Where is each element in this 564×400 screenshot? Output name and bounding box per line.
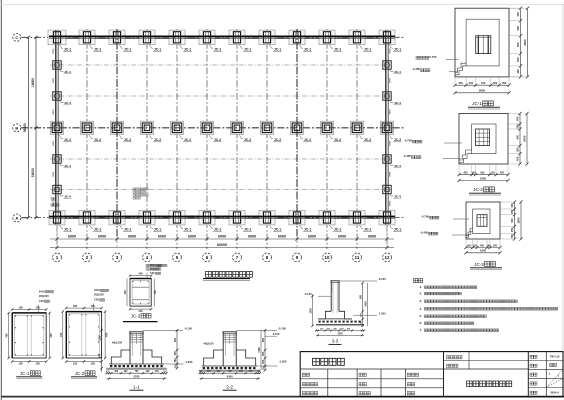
svg-text:300: 300 [516,147,520,152]
svg-text:100: 100 [257,371,260,373]
svg-text:JC-4: JC-4 [394,101,401,105]
svg-text:2-2: 2-2 [226,384,233,389]
svg-text:JC-2: JC-2 [364,138,371,142]
svg-text:-0.150: -0.150 [184,326,192,330]
svg-text:JC-1: JC-1 [154,228,161,232]
svg-text:JC-2: JC-2 [94,138,101,142]
svg-text:4200: 4200 [227,375,233,379]
svg-text:550: 550 [516,25,520,30]
svg-text:-0.450: -0.450 [403,154,411,158]
svg-text:6000: 6000 [390,77,392,83]
svg-text:6000: 6000 [53,77,55,83]
svg-text:JC-1: JC-1 [364,228,371,232]
svg-text:450: 450 [463,172,468,175]
svg-text:250: 250 [511,209,514,214]
svg-text:450: 450 [500,172,505,175]
svg-text:1200: 1200 [98,335,101,341]
svg-text:6000: 6000 [128,235,136,239]
svg-text:6000: 6000 [390,48,392,54]
svg-text:6000: 6000 [368,235,376,239]
svg-text:1400: 1400 [337,332,343,335]
svg-text:JC-1: JC-1 [184,228,191,232]
svg-text:#8@200: #8@200 [39,294,49,298]
svg-text:JC-2: JC-2 [154,138,161,142]
svg-text:2400: 2400 [480,176,486,180]
svg-text:JC-4: JC-4 [64,164,71,168]
svg-text:JC-1: JC-1 [94,228,101,232]
svg-text:JC-1: JC-1 [94,48,101,52]
svg-text:650: 650 [516,42,520,47]
svg-text:150: 150 [471,172,476,175]
svg-text:240: 240 [139,273,144,276]
svg-text:300: 300 [467,244,472,247]
svg-text:B: B [15,125,18,130]
svg-text:-0.450: -0.450 [412,67,420,71]
svg-text:900: 900 [359,294,362,299]
svg-text:185: 185 [19,306,24,309]
svg-text:700: 700 [481,81,486,85]
svg-text:5.: 5. [420,314,423,318]
svg-text:6000: 6000 [68,235,76,239]
svg-text:C30: C30 [150,272,155,275]
svg-text:#8@150: #8@150 [150,268,160,271]
svg-text:450: 450 [502,81,507,85]
svg-text:JC-1: JC-1 [184,48,191,52]
svg-text:350: 350 [262,351,265,356]
svg-text:6.: 6. [420,321,423,325]
svg-text:1-1: 1-1 [133,384,140,389]
svg-text:JC-1: JC-1 [64,228,71,232]
svg-text:550: 550 [516,57,520,62]
svg-text:3-3: 3-3 [332,339,339,344]
svg-text:JC-2: JC-2 [214,138,221,142]
svg-text:4.: 4. [420,307,423,311]
svg-text:6000: 6000 [98,235,106,239]
svg-text:2.: 2. [420,292,423,296]
svg-text:JC-2: JC-2 [473,187,483,192]
svg-text:JC-2: JC-2 [75,371,85,376]
svg-text:C30: C30 [39,299,44,303]
svg-text:400: 400 [493,81,498,85]
svg-text:12: 12 [385,255,390,260]
svg-text:JC-2: JC-2 [244,138,251,142]
svg-text:450: 450 [516,12,520,17]
svg-text:400: 400 [480,244,485,247]
svg-text:JC-1: JC-1 [124,48,131,52]
svg-text:1600: 1600 [480,249,486,253]
svg-text:JC-1: JC-1 [334,228,341,232]
svg-text:JC-1: JC-1 [274,228,281,232]
svg-text:C30: C30 [94,298,99,302]
svg-text:300: 300 [493,244,498,247]
svg-text:350: 350 [262,359,265,364]
svg-text:2400: 2400 [523,135,527,142]
svg-text:600: 600 [480,172,485,175]
svg-text:6000: 6000 [53,171,55,177]
svg-text:6000: 6000 [390,171,392,177]
svg-text:450: 450 [59,332,63,337]
svg-text:2004.4: 2004.4 [550,391,559,395]
svg-text:C: C [15,35,18,40]
svg-text:185: 185 [73,305,78,308]
svg-text:6000: 6000 [53,109,55,115]
svg-text:JC-4: JC-4 [394,164,401,168]
svg-text:150: 150 [487,244,492,247]
svg-text:T06-1-16: T06-1-16 [550,356,560,359]
svg-text:600: 600 [516,134,520,139]
svg-text:4#14: 4#14 [150,264,156,267]
svg-text:-0.700: -0.700 [404,139,412,143]
svg-text:400: 400 [516,156,520,161]
svg-text:185: 185 [91,305,96,308]
svg-text:JC-4: JC-4 [64,195,71,199]
svg-text:#8@200: #8@200 [94,293,104,297]
svg-text:6000: 6000 [308,235,316,239]
svg-text:JC-3: JC-3 [131,313,141,318]
svg-text:100: 100 [199,371,202,373]
svg-text:JC-1: JC-1 [244,228,251,232]
svg-text:#8@150: #8@150 [204,342,215,346]
svg-text:-0.450: -0.450 [420,231,428,235]
svg-text:500: 500 [511,218,514,223]
svg-text:185: 185 [73,363,78,366]
svg-text:6000: 6000 [188,235,196,239]
svg-text:JC-2: JC-2 [274,138,281,142]
svg-text:1200: 1200 [309,308,312,314]
svg-text:6000: 6000 [248,235,256,239]
svg-text:300: 300 [124,290,127,295]
svg-text:2#16: 2#16 [94,288,100,292]
svg-text:JC-4: JC-4 [394,195,401,199]
svg-text:350: 350 [174,351,177,356]
svg-text:450: 450 [104,332,108,337]
svg-text:6000: 6000 [390,140,392,146]
svg-text:JC-1: JC-1 [304,228,311,232]
svg-text:JC-2: JC-2 [184,138,191,142]
svg-text:3.: 3. [420,299,423,303]
svg-text:JC-1: JC-1 [64,48,71,52]
svg-text:2700: 2700 [134,375,140,379]
svg-text:JC-1: JC-1 [214,48,221,52]
svg-text:900: 900 [174,337,177,342]
svg-text:300: 300 [511,203,514,208]
svg-text:-1.050: -1.050 [185,360,193,364]
svg-text:1600: 1600 [517,217,521,224]
svg-text:450: 450 [458,81,463,85]
svg-text:JC-1: JC-1 [472,101,482,106]
svg-text:#8@150: #8@150 [112,341,123,345]
svg-text:-0.700: -0.700 [429,55,437,59]
svg-text:66000: 66000 [217,243,227,247]
svg-text:150: 150 [491,172,496,175]
svg-text:6000: 6000 [158,235,166,239]
svg-text:18000: 18000 [31,78,35,87]
svg-text:6000: 6000 [53,48,55,54]
svg-text:200: 200 [516,124,520,129]
svg-text:450: 450 [49,333,53,338]
svg-text:185: 185 [36,363,41,366]
svg-text:2#16: 2#16 [39,289,45,293]
svg-text:150: 150 [473,244,478,247]
svg-text:36000: 36000 [23,123,27,132]
svg-text:-0.700: -0.700 [421,215,429,219]
svg-text:300: 300 [154,290,157,295]
svg-text:JC-1: JC-1 [214,228,221,232]
svg-text:6000: 6000 [390,200,392,206]
svg-text:JC-2: JC-2 [64,138,71,142]
svg-text:6000: 6000 [278,235,286,239]
svg-text:JC-1: JC-1 [394,48,401,52]
svg-text:JC-2: JC-2 [304,138,311,142]
svg-text:-0.150: -0.150 [278,326,286,330]
svg-text:185: 185 [91,363,96,366]
svg-text:185: 185 [36,306,41,309]
svg-text:1.: 1. [420,285,423,289]
svg-text:JC-1: JC-1 [274,48,281,52]
svg-text:350: 350 [174,358,177,363]
svg-text:100: 100 [163,371,166,373]
svg-text:-1.050: -1.050 [279,360,287,364]
svg-text:JC-4: JC-4 [64,101,71,105]
svg-text:-0.150: -0.150 [378,277,386,281]
svg-text:100: 100 [106,371,109,373]
svg-text:6000: 6000 [390,109,392,115]
svg-text:JC-1: JC-1 [334,48,341,52]
svg-text:6000: 6000 [218,235,226,239]
svg-text:JC-4: JC-4 [64,70,71,74]
svg-text:-0.150: -0.150 [272,332,280,336]
svg-text:185: 185 [19,363,24,366]
svg-text:2650: 2650 [523,39,527,46]
svg-text:7.: 7. [420,328,423,332]
svg-text:1450: 1450 [258,347,261,353]
svg-text:JC-2: JC-2 [124,138,131,142]
svg-text:400: 400 [469,81,474,85]
svg-text:JC-1: JC-1 [124,228,131,232]
svg-text:JC-1: JC-1 [304,48,311,52]
svg-text:300: 300 [511,234,514,239]
svg-text:250: 250 [511,227,514,232]
svg-text:2650: 2650 [479,89,486,93]
svg-text:18000: 18000 [31,168,35,177]
svg-text:A: A [15,216,18,221]
svg-text:1400: 1400 [364,301,367,307]
svg-text:10: 10 [325,255,330,260]
svg-text:JC-2: JC-2 [394,138,401,142]
svg-text:JC-1: JC-1 [154,48,161,52]
svg-text:JC-4: JC-4 [394,70,401,74]
svg-text:JC-1: JC-1 [244,48,251,52]
svg-text:11: 11 [355,255,360,260]
svg-text:JC-1: JC-1 [394,228,401,232]
svg-text:-1.050: -1.050 [378,311,386,315]
svg-text:450: 450 [516,69,520,74]
svg-text:900: 900 [98,353,101,358]
svg-text:JC-1: JC-1 [364,48,371,52]
svg-text:900: 900 [262,337,265,342]
svg-text:-0.150: -0.150 [304,292,312,296]
svg-text:450: 450 [5,333,9,338]
svg-text:6000: 6000 [53,140,55,146]
svg-text:JC-1: JC-1 [20,371,30,376]
svg-text:JC-2: JC-2 [334,138,341,142]
svg-text:JC-3: JC-3 [474,262,484,267]
svg-text:400: 400 [516,116,520,121]
svg-text:6000: 6000 [338,235,346,239]
